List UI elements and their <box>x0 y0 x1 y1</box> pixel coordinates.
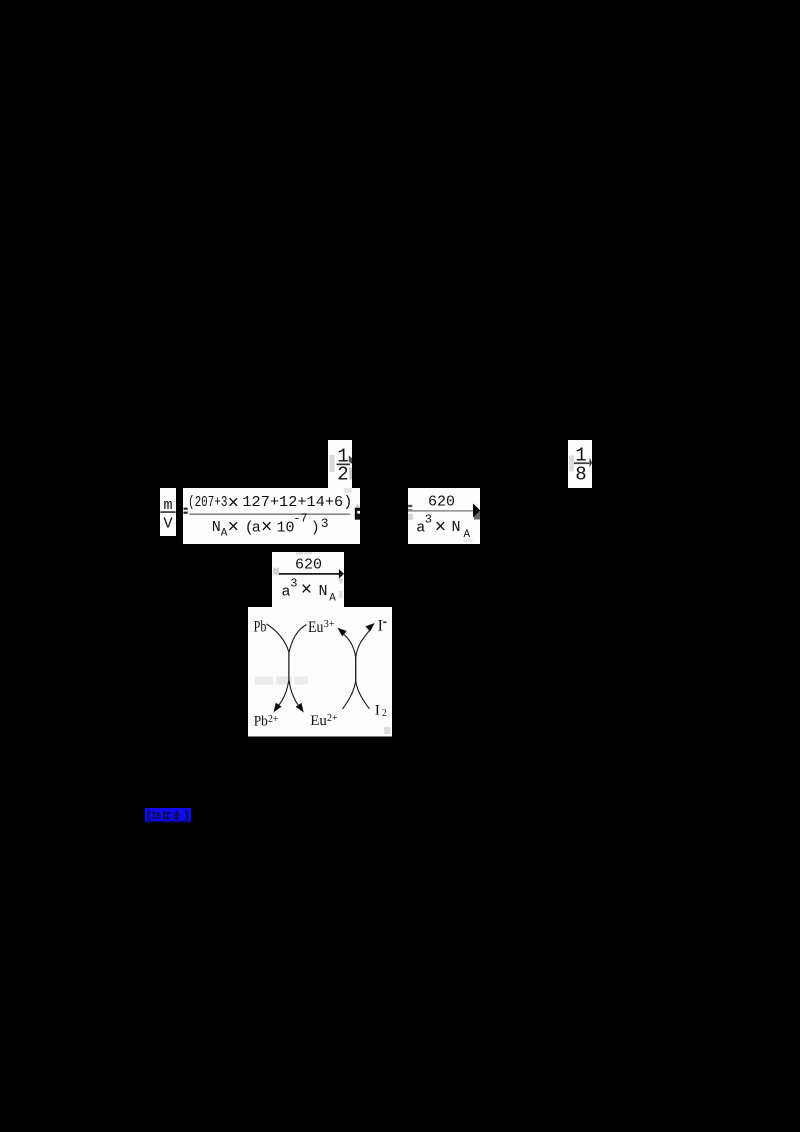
svg-text:a: a <box>282 584 291 601</box>
svg-text:×: × <box>435 517 446 539</box>
svg-text:I: I <box>375 703 380 719</box>
svg-text:-7: -7 <box>293 512 307 526</box>
svg-text:×: × <box>301 579 312 601</box>
fraction line <box>190 513 351 515</box>
svg-text:N: N <box>452 519 461 536</box>
svg-text:N: N <box>319 583 328 600</box>
svg-text:A: A <box>329 593 336 605</box>
partial equals left <box>408 505 412 507</box>
arrow right <box>339 569 344 579</box>
svg-text:3+: 3+ <box>324 619 335 630</box>
partial equals at left edge <box>184 508 188 510</box>
svg-text:8: 8 <box>575 464 586 486</box>
svg-text:3: 3 <box>425 513 432 527</box>
arrow right <box>474 512 480 520</box>
svg-text:×: × <box>228 517 239 539</box>
svg-text:620: 620 <box>428 494 455 511</box>
svg-text:10: 10 <box>277 520 295 537</box>
formula image: m/V <box>160 488 176 536</box>
diagram image: Pb/Eu/I redox cycle <box>248 607 392 737</box>
svg-text:Pb: Pb <box>254 618 267 635</box>
svg-text:N: N <box>212 519 221 536</box>
fraction line <box>279 573 340 575</box>
svg-text:×: × <box>261 517 272 539</box>
curve I2 to Eu3+ <box>343 634 369 709</box>
svg-text:620: 620 <box>295 557 322 574</box>
formula image: 620/(a^3 x NA) with right arrow, first <box>408 488 480 544</box>
svg-text:2+: 2+ <box>327 712 338 724</box>
svg-text:a: a <box>252 520 261 537</box>
partial glyph right edge <box>355 508 360 520</box>
curve Eu3+ to Pb2+ <box>278 625 306 707</box>
formula image: big fraction (207+3x127+12+14+6)/(NAx(ax10^-7)^3) <box>183 488 360 544</box>
curve Pb to Eu2+ <box>267 624 300 706</box>
blue label <box>145 808 191 823</box>
svg-text:Eu: Eu <box>310 713 327 729</box>
svg-text:×: × <box>228 492 239 514</box>
svg-text:2: 2 <box>382 708 387 719</box>
formula image: fraction 1/8 <box>568 440 592 488</box>
svg-text:3: 3 <box>290 577 297 591</box>
svg-text:): ) <box>311 520 320 537</box>
fraction line <box>408 510 474 512</box>
svg-text:Eu: Eu <box>308 619 323 636</box>
gray handle square <box>384 727 391 734</box>
formula image: fraction 1/2 <box>328 440 352 488</box>
svg-text:V: V <box>163 516 172 533</box>
svg-text:3: 3 <box>321 516 329 531</box>
curve Eu2+ to I- <box>343 631 370 709</box>
svg-text:I: I <box>378 617 383 634</box>
svg-text:(207+3: (207+3 <box>188 494 227 511</box>
svg-text:127+12+14+6): 127+12+14+6) <box>242 494 352 511</box>
svg-text:2: 2 <box>337 464 348 486</box>
svg-text:2+: 2+ <box>268 713 279 725</box>
svg-text:Pb: Pb <box>254 713 268 729</box>
formula image: 620/(a^3 x NA) with right arrow, second <box>272 552 344 608</box>
faint ghost text <box>255 677 273 685</box>
